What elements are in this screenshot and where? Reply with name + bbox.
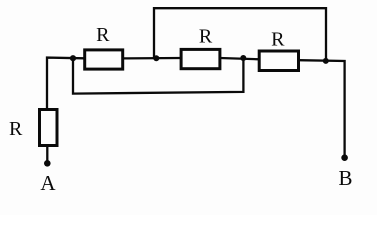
- wire: bottom of vertical resistor R down to terminal A: [46, 146, 48, 163]
- resistor R (vertical, left branch): [40, 110, 58, 146]
- node junction between R1 and R2: [153, 55, 159, 61]
- node junction after R3: [323, 58, 329, 64]
- svg-text:R: R: [96, 24, 110, 46]
- resistor R1 (first horizontal): [85, 50, 123, 69]
- wire: R1 right to R2 left through node: [123, 57, 181, 60]
- terminal dot A: [44, 160, 51, 167]
- resistor R3 (third horizontal): [259, 51, 298, 71]
- resistor R2 (second horizontal): [181, 49, 220, 68]
- svg-text:R: R: [271, 29, 285, 51]
- wire: top bypass loop from node between R1/R2 up over to node after R3: [154, 8, 326, 61]
- svg-text:B: B: [338, 166, 352, 190]
- node junction after R1 input side: [70, 55, 76, 61]
- svg-text:A: A: [40, 171, 56, 195]
- svg-text:R: R: [9, 118, 23, 140]
- wire: from top of vertical resistor R up and right to node A1 and into R1: [47, 58, 84, 108]
- wire: R3 right through node, right then down to terminal B: [299, 60, 345, 157]
- wire: R2 right to R3 left through node: [220, 58, 260, 59]
- terminal dot B: [341, 154, 348, 161]
- wire: lower bypass from node after R1-left down, across, up to node between R2/R3: [73, 58, 243, 94]
- svg-text:R: R: [199, 26, 213, 48]
- node junction between R2 and R3: [240, 55, 246, 61]
